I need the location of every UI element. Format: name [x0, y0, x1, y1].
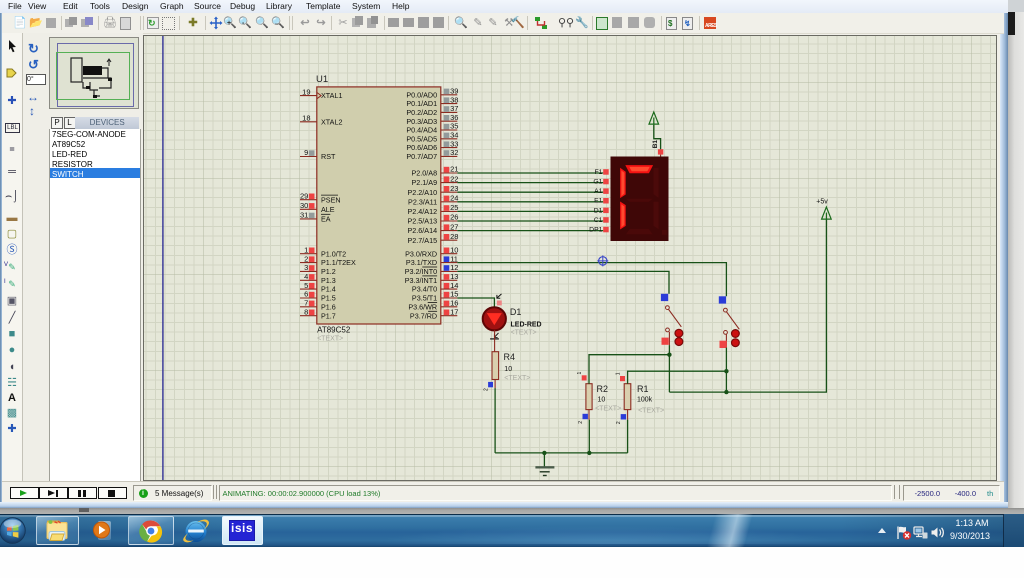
- wire switch SW2 bottom to rail: [725, 348, 727, 393]
- 7seg display DS1 body: [611, 157, 669, 242]
- svg-text:36: 36: [450, 113, 458, 122]
- power symbol above 7seg: [649, 112, 659, 125]
- svg-text:P1.6: P1.6: [321, 302, 336, 311]
- svg-text:XTAL2: XTAL2: [321, 117, 342, 126]
- 7seg segment F lit: [620, 168, 626, 198]
- svg-text:P3.7/RD: P3.7/RD: [410, 311, 437, 320]
- wire R2 top to switch SW1 bottom node: [589, 355, 669, 384]
- 7seg segment B unlit: [654, 168, 659, 198]
- wire 7seg B1 pin to power arrow: [654, 125, 661, 149]
- svg-text:DP1: DP1: [589, 227, 602, 234]
- svg-text:P2.7/A15: P2.7/A15: [408, 236, 438, 245]
- wire R2 bottom to rail: [588, 420, 590, 453]
- svg-text:RST: RST: [321, 152, 336, 161]
- svg-text:<TEXT>: <TEXT>: [511, 330, 537, 337]
- svg-text:P2.5/A13: P2.5/A13: [408, 217, 438, 226]
- svg-text:28: 28: [450, 232, 458, 241]
- ground symbol: [535, 453, 554, 476]
- svg-text:7: 7: [304, 299, 308, 308]
- svg-text:2: 2: [578, 421, 584, 424]
- resistor R2 top pin state square: [577, 372, 587, 381]
- svg-text:B1: B1: [652, 140, 659, 149]
- svg-text:15: 15: [450, 290, 458, 299]
- svg-text:4: 4: [304, 272, 308, 281]
- wire R1 bottom to rail: [627, 420, 629, 453]
- svg-text:16: 16: [450, 299, 458, 308]
- 7seg left pin squares and labels: [589, 169, 609, 234]
- svg-text:+5v: +5v: [816, 198, 828, 205]
- svg-text:25: 25: [450, 203, 458, 212]
- tray network: [913, 526, 928, 539]
- svg-text:1: 1: [615, 372, 621, 375]
- svg-text:P0.3/AD3: P0.3/AD3: [406, 117, 437, 126]
- wire P3.1 to switch SW2: [457, 263, 726, 297]
- svg-text:P0.0/AD0: P0.0/AD0: [406, 90, 437, 99]
- svg-text:30: 30: [300, 201, 308, 210]
- svg-text:34: 34: [450, 131, 458, 140]
- U1 pins P2.0-P2.7 numbers 21-28: [408, 165, 459, 245]
- svg-text:100k: 100k: [637, 396, 653, 403]
- wire +5v rail: [669, 219, 826, 392]
- svg-text:R1: R1: [637, 384, 649, 394]
- svg-text:EA: EA: [321, 215, 331, 224]
- switch SW2: [719, 296, 740, 348]
- svg-text:P2.6/A14: P2.6/A14: [408, 226, 438, 235]
- explorer button (active): [36, 516, 79, 545]
- power symbol +5v: [816, 198, 831, 219]
- P / L buttons and DEVICES header: [51, 117, 63, 129]
- show desktop: [1003, 514, 1004, 547]
- LED D1 anode marker and state square: [497, 294, 502, 306]
- svg-text:P2.0/A8: P2.0/A8: [412, 169, 438, 178]
- svg-text:P1.7: P1.7: [321, 311, 336, 320]
- svg-text:39: 39: [450, 87, 458, 96]
- svg-text:29: 29: [300, 191, 308, 200]
- svg-text:24: 24: [450, 194, 458, 203]
- clock: [946, 518, 998, 528]
- wires P2.0-P2.6 to 7seg segment pins: [457, 173, 603, 231]
- svg-text:<TEXT>: <TEXT>: [595, 406, 621, 413]
- svg-text:P2.3/A11: P2.3/A11: [408, 197, 437, 206]
- svg-text:P2.2/A10: P2.2/A10: [408, 188, 438, 197]
- wmp icon: [98, 521, 111, 540]
- resistor R4 labels: [504, 352, 531, 382]
- svg-text:<TEXT>: <TEXT>: [504, 375, 530, 382]
- resistor R1 body: [624, 384, 631, 410]
- wire R1 top to switch SW2 bottom node: [628, 371, 727, 384]
- svg-text:5: 5: [304, 281, 308, 290]
- resistor R4 body: [492, 352, 499, 380]
- svg-text:19: 19: [302, 87, 310, 96]
- 7seg segment A lit: [625, 165, 653, 173]
- svg-text:R4: R4: [504, 352, 516, 362]
- svg-text:6: 6: [304, 290, 308, 299]
- svg-text:F1: F1: [594, 169, 602, 176]
- svg-text:P1.3: P1.3: [321, 276, 336, 285]
- svg-text:10: 10: [504, 366, 512, 373]
- device list: [49, 129, 141, 482]
- svg-text:12: 12: [450, 263, 458, 272]
- svg-text:P2.1/A9: P2.1/A9: [412, 178, 438, 187]
- svg-text:22: 22: [450, 174, 458, 183]
- 7seg segment DP unlit: [662, 230, 667, 235]
- svg-text:P0.2/AD2: P0.2/AD2: [406, 108, 437, 117]
- U1 left pins XTAL1 XTAL2 RST PSEN ALE EA: [300, 87, 342, 223]
- U1 pins P3.0-P3.7 numbers 10-17: [405, 245, 459, 320]
- svg-text:R2: R2: [597, 384, 609, 394]
- svg-text:PSEN: PSEN: [321, 195, 341, 204]
- svg-text:23: 23: [450, 184, 458, 193]
- svg-text:1: 1: [577, 372, 583, 375]
- LED D1 labels: [510, 307, 542, 337]
- svg-text:9: 9: [304, 148, 308, 157]
- svg-text:G1: G1: [593, 179, 602, 186]
- junction dot ground rail / gnd: [542, 451, 546, 455]
- mcu U1 body: [317, 87, 441, 324]
- svg-text:35: 35: [450, 122, 458, 131]
- svg-text:P0.5/AD5: P0.5/AD5: [406, 134, 437, 143]
- resistor R2 labels: [595, 384, 621, 413]
- svg-text:<TEXT>: <TEXT>: [638, 408, 664, 415]
- svg-text:P3.2/INT0: P3.2/INT0: [405, 267, 437, 276]
- svg-text:P3.5/T1: P3.5/T1: [412, 294, 437, 303]
- svg-text:2: 2: [483, 388, 489, 391]
- svg-text:3: 3: [304, 263, 308, 272]
- svg-text:18: 18: [302, 114, 310, 123]
- svg-text:2: 2: [304, 254, 308, 263]
- U1 pins P0.0-P0.7 numbers 39-32: [406, 87, 458, 162]
- resistor R1 top pin state square: [615, 372, 625, 381]
- LED D1: [483, 307, 506, 330]
- svg-text:P1.0/T2: P1.0/T2: [321, 249, 346, 258]
- svg-text:AT89C52: AT89C52: [317, 326, 351, 335]
- resistor R4 bottom pin and state square: [483, 380, 495, 392]
- chrome button: [128, 516, 174, 545]
- U1 pins P1.0-P1.7 numbers 1-8: [300, 245, 356, 320]
- resistor R2 bottom pin state square: [578, 410, 589, 424]
- svg-text:<TEXT>: <TEXT>: [317, 336, 343, 343]
- wire LED D1 cathode to R4: [494, 330, 496, 352]
- start orb: [0, 516, 28, 546]
- 7seg segment D unlit: [626, 229, 653, 235]
- svg-text:P1.1/T2EX: P1.1/T2EX: [321, 258, 356, 267]
- switch SW1: [661, 294, 683, 346]
- isis button (active, light): [222, 516, 263, 545]
- overview panel: [49, 37, 139, 109]
- svg-text:17: 17: [450, 307, 458, 316]
- resistor R2 body: [586, 384, 592, 410]
- svg-text:U1: U1: [316, 74, 328, 85]
- wire P3.5 to LED D1: [457, 298, 494, 307]
- svg-text:14: 14: [450, 281, 458, 290]
- svg-text:37: 37: [450, 104, 458, 113]
- junction dot ground rail / R2: [587, 451, 591, 455]
- svg-text:33: 33: [450, 139, 458, 148]
- svg-text:P2.4/A12: P2.4/A12: [408, 207, 438, 216]
- svg-text:P0.6/AD6: P0.6/AD6: [406, 143, 437, 152]
- white strip at bottom: [0, 547, 1024, 578]
- simulation control buttons: [10, 487, 39, 499]
- svg-text:38: 38: [450, 95, 458, 104]
- svg-text:13: 13: [450, 272, 458, 281]
- sheet border line: [162, 36, 164, 481]
- tray flag: [896, 526, 912, 540]
- svg-text:2: 2: [616, 421, 622, 424]
- junction dot SW2 rail node: [724, 390, 728, 394]
- tray up arrow: [878, 528, 886, 533]
- svg-text:P1.2: P1.2: [321, 267, 336, 276]
- window shadow rows above taskbar: [0, 508, 1024, 514]
- svg-text:C1: C1: [594, 217, 603, 224]
- svg-text:10: 10: [450, 245, 458, 254]
- svg-text:26: 26: [450, 213, 458, 222]
- resistor R1 labels: [637, 384, 664, 415]
- svg-text:D1: D1: [510, 307, 522, 317]
- svg-text:8: 8: [304, 307, 308, 316]
- canvas: [143, 35, 997, 481]
- svg-text:1: 1: [304, 245, 308, 254]
- svg-text:10: 10: [598, 396, 606, 403]
- svg-text:P0.4/AD4: P0.4/AD4: [406, 126, 437, 135]
- 7seg segment G unlit: [626, 199, 653, 202]
- LED D1 cathode marks: [490, 333, 499, 339]
- svg-text:ALE: ALE: [321, 205, 335, 214]
- svg-text:P3.0/RXD: P3.0/RXD: [405, 249, 437, 258]
- svg-text:P3.6/WR: P3.6/WR: [408, 302, 437, 311]
- wire switch SW1 bottom to rail: [668, 345, 670, 392]
- svg-text:P1.4: P1.4: [321, 285, 336, 294]
- svg-text:11: 11: [450, 254, 458, 263]
- svg-text:31: 31: [300, 211, 308, 220]
- svg-text:21: 21: [450, 165, 458, 174]
- svg-text:32: 32: [450, 148, 458, 157]
- window borders: [0, 0, 2, 508]
- desktop strip right of window: [1008, 0, 1024, 514]
- svg-text:P0.1/AD1: P0.1/AD1: [406, 99, 437, 108]
- origin marker node: [597, 255, 608, 266]
- message area: [133, 485, 212, 501]
- svg-text:P3.1/TXD: P3.1/TXD: [406, 258, 437, 267]
- junction dot SW2/R1 node: [724, 369, 728, 373]
- svg-text:E1: E1: [594, 198, 603, 205]
- resistor R1 bottom pin state square: [616, 410, 628, 425]
- svg-text:LED-RED: LED-RED: [511, 322, 542, 329]
- ground rail wire: [495, 452, 627, 454]
- 7seg segment E lit: [620, 202, 626, 230]
- svg-text:P3.4/T0: P3.4/T0: [412, 285, 437, 294]
- svg-text:27: 27: [450, 222, 458, 231]
- wire P3.2 to switch SW1: [457, 271, 669, 293]
- 7seg segment C unlit: [654, 202, 659, 230]
- IE icon: [181, 517, 211, 545]
- svg-text:XTAL1: XTAL1: [321, 91, 342, 100]
- svg-text:P1.5: P1.5: [321, 294, 336, 303]
- wire R4 to ground rail: [494, 388, 496, 453]
- svg-text:A1: A1: [594, 188, 603, 195]
- svg-text:P0.7/AD7: P0.7/AD7: [406, 152, 437, 161]
- junction dot SW1/R2 node: [667, 353, 671, 357]
- 7seg top pin B1: [652, 140, 663, 157]
- tray speaker: [930, 526, 945, 539]
- svg-text:D1: D1: [594, 207, 603, 214]
- svg-text:P3.3/INT1: P3.3/INT1: [405, 276, 437, 285]
